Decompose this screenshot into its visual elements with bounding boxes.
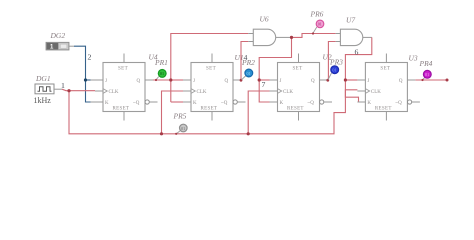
wire net 5 (Q of U2 to U7 input B) bbox=[328, 42, 336, 81]
svg-text:PR1: PR1 bbox=[154, 58, 168, 67]
svg-text:~Q: ~Q bbox=[395, 101, 402, 106]
junction node net6 at J of U3 bbox=[344, 78, 347, 81]
svg-text:J: J bbox=[367, 79, 369, 84]
junction node net1 rail to U1 clk bbox=[160, 132, 163, 135]
svg-text:PR3: PR3 bbox=[329, 58, 343, 67]
svg-text:1kHz: 1kHz bbox=[34, 96, 52, 105]
svg-text:Q: Q bbox=[137, 79, 141, 84]
svg-text:01: 01 bbox=[247, 71, 251, 76]
svg-text:K: K bbox=[193, 101, 197, 106]
node net8 endpoint bbox=[446, 79, 449, 82]
svg-text:SET: SET bbox=[293, 67, 303, 72]
svg-text:7: 7 bbox=[262, 80, 266, 89]
svg-text:U7: U7 bbox=[346, 16, 355, 25]
wire net 8 (Q of U3 output stub) bbox=[415, 79, 447, 81]
svg-text:6: 6 bbox=[355, 48, 359, 57]
probe PR5 bbox=[173, 112, 188, 135]
svg-text:SET: SET bbox=[380, 67, 390, 72]
probe PR6 bbox=[310, 10, 324, 35]
svg-text:RESET: RESET bbox=[201, 107, 218, 112]
svg-text:~Q: ~Q bbox=[221, 101, 228, 106]
junction node net2 at J of U4 bbox=[84, 78, 87, 81]
junction node U6 output bbox=[290, 36, 293, 39]
svg-text:J: J bbox=[280, 79, 282, 84]
svg-text:Q: Q bbox=[311, 79, 315, 84]
junction node Q1 bbox=[169, 78, 172, 81]
svg-text:SET: SET bbox=[118, 67, 128, 72]
probe PR4 bbox=[419, 59, 433, 81]
probe PR1 bbox=[154, 58, 168, 81]
svg-text:1: 1 bbox=[61, 81, 65, 90]
probe PR3 bbox=[328, 58, 343, 80]
svg-text:PR6: PR6 bbox=[310, 10, 324, 19]
svg-text:01: 01 bbox=[160, 71, 164, 76]
svg-text:CLK: CLK bbox=[371, 90, 381, 95]
svg-text:01: 01 bbox=[425, 72, 429, 77]
svg-text:01: 01 bbox=[318, 22, 322, 27]
svg-text:Q: Q bbox=[225, 79, 229, 84]
svg-text:J: J bbox=[105, 79, 107, 84]
svg-text:DG1: DG1 bbox=[35, 74, 51, 83]
JK flip-flop U4 bbox=[91, 54, 158, 121]
wire net 1 (clock rail) bbox=[62, 89, 357, 134]
clock source DG1 1kHz bbox=[34, 74, 63, 105]
svg-text:01: 01 bbox=[332, 68, 336, 73]
svg-text:01: 01 bbox=[181, 126, 185, 131]
svg-text:K: K bbox=[280, 101, 284, 106]
junction node net7 at J of U2 bbox=[258, 78, 261, 81]
JK flip-flop U1 bbox=[183, 54, 246, 121]
svg-text:K: K bbox=[105, 101, 109, 106]
svg-text:U3: U3 bbox=[409, 54, 418, 63]
svg-text:RESET: RESET bbox=[287, 107, 304, 112]
svg-text:~Q: ~Q bbox=[133, 101, 140, 106]
junction node Q2 bbox=[240, 79, 243, 82]
wire net 7 (U6 out to J,K of U2 and U7 input A) bbox=[259, 34, 336, 103]
junction node Q3 bbox=[326, 79, 329, 82]
JK flip-flop U2 bbox=[270, 54, 333, 121]
junction node net1 rail to U2 clk bbox=[247, 132, 250, 135]
wire net 3 (Q of U4 to J,K of U1 and U6 input A) bbox=[153, 34, 248, 103]
JK flip-flop U3 bbox=[357, 54, 420, 121]
svg-text:PR2: PR2 bbox=[241, 58, 255, 67]
wire net 4 (Q of U1 to U6 input B) bbox=[241, 42, 248, 81]
svg-text:Q: Q bbox=[399, 79, 403, 84]
svg-text:J: J bbox=[193, 79, 195, 84]
svg-text:U6: U6 bbox=[260, 15, 269, 24]
svg-text:SET: SET bbox=[206, 67, 216, 72]
svg-text:PR4: PR4 bbox=[419, 59, 433, 68]
svg-text:CLK: CLK bbox=[109, 90, 119, 95]
svg-text:PR5: PR5 bbox=[173, 112, 187, 121]
svg-text:CLK: CLK bbox=[283, 90, 293, 95]
svg-text:~Q: ~Q bbox=[308, 101, 315, 106]
AND gate U6 bbox=[248, 29, 291, 45]
svg-text:2: 2 bbox=[88, 53, 92, 62]
svg-text:DG2: DG2 bbox=[50, 31, 66, 40]
digital constant DG2 bbox=[46, 31, 74, 51]
svg-text:K: K bbox=[367, 101, 371, 106]
svg-text:CLK: CLK bbox=[197, 90, 207, 95]
junction node net1 at DG1 bbox=[67, 89, 70, 92]
wire net 6 (U7 out to J,K of U3) bbox=[345, 37, 371, 102]
svg-text:RESET: RESET bbox=[375, 107, 392, 112]
svg-text:RESET: RESET bbox=[113, 107, 130, 112]
probe PR2 bbox=[241, 58, 255, 80]
wire net 2 (DG2 to J,K of U4) bbox=[74, 46, 91, 102]
AND gate U7 bbox=[336, 29, 372, 45]
